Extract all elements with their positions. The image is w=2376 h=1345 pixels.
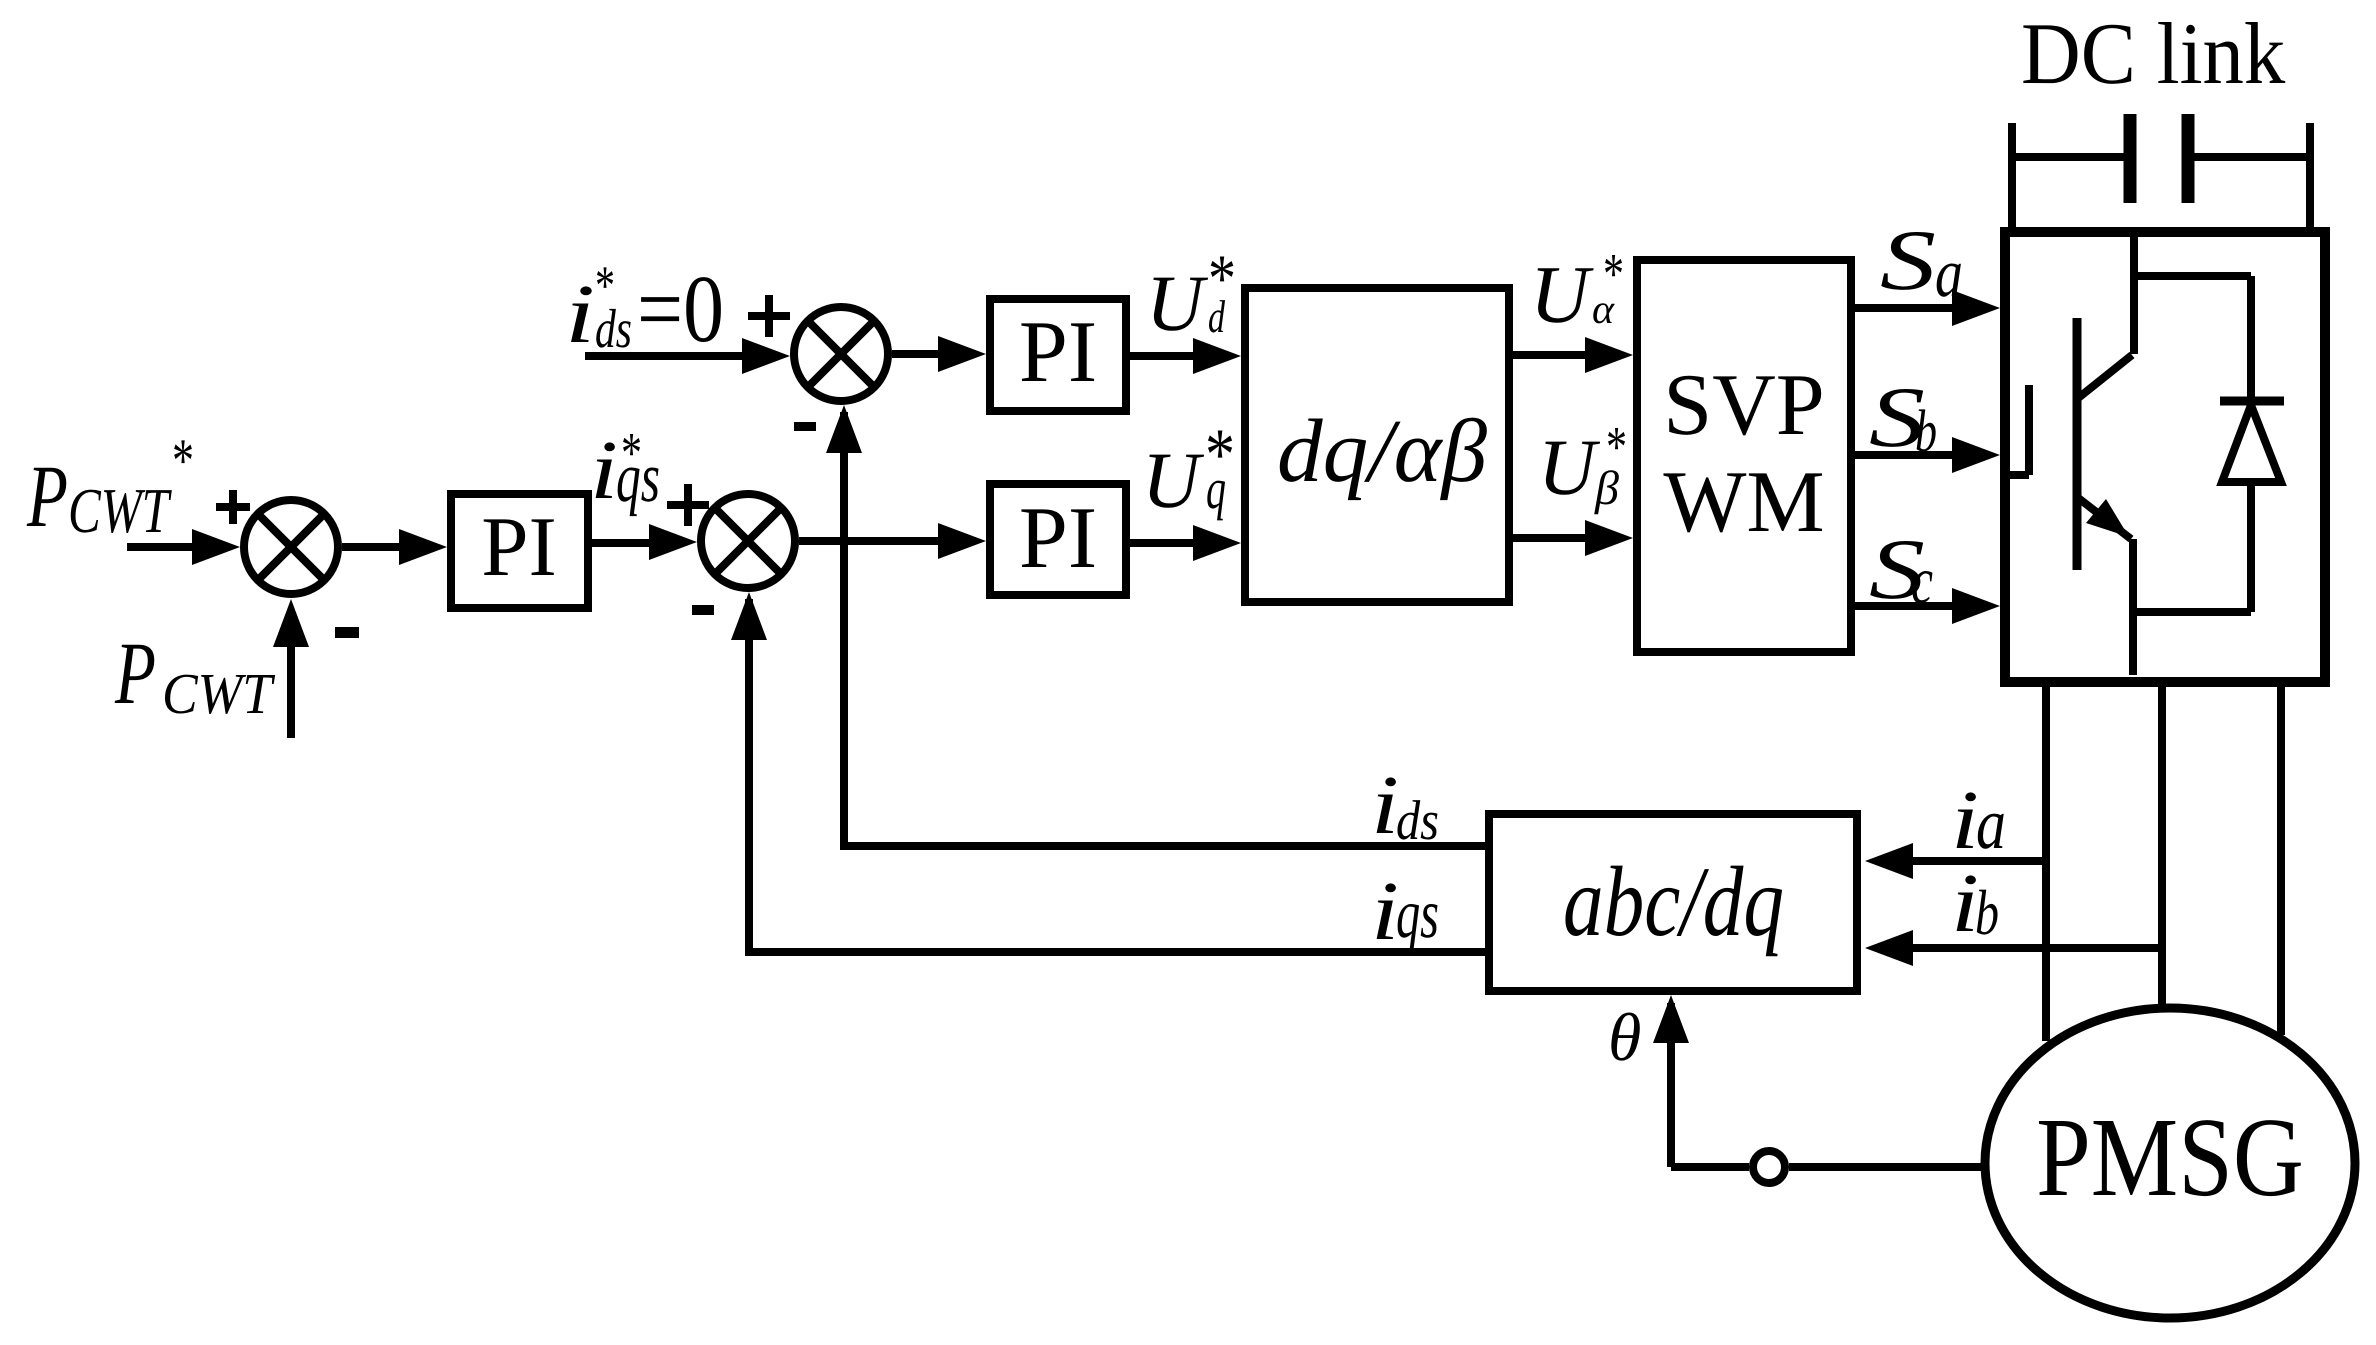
svg-text:P: P [26, 448, 68, 546]
svg-text:b: b [1975, 877, 1999, 948]
IGBT gate bar [2025, 385, 2033, 475]
wire diode to collector [2134, 272, 2251, 280]
label Sb [1869, 369, 1937, 465]
wire i*ds input [585, 352, 750, 360]
svg-text:*: * [1205, 414, 1235, 496]
plus sign J1 [216, 490, 250, 524]
wire J3 to PI2 [892, 350, 946, 358]
svg-text:i: i [1951, 774, 1979, 867]
wire sensor to PMSG [1789, 1163, 1985, 1171]
label i*qs [590, 420, 660, 517]
wire ib current [1912, 944, 2162, 952]
PMSG generator [1985, 1008, 2355, 1318]
wire ia current [1912, 857, 2046, 865]
wire U beta to SVPWM [1513, 534, 1593, 542]
IGBT collector lead [2130, 227, 2138, 354]
svg-text:*: * [1208, 240, 1236, 316]
svg-text:U: U [1530, 249, 1594, 340]
PI controller box PI3 [990, 484, 1126, 595]
label Sa [1880, 212, 1963, 311]
svg-text:*: * [1606, 414, 1627, 479]
svg-text:DC link: DC link [2021, 6, 2285, 103]
svg-text:*: * [1603, 241, 1624, 306]
svg-text:abc/dq: abc/dq [1563, 846, 1784, 957]
SVPWM block [1637, 260, 1851, 652]
svg-text:PI: PI [481, 500, 557, 594]
svg-text:*: * [621, 420, 642, 485]
IGBT phase leg [2129, 539, 2137, 675]
svg-text:=0: =0 [637, 255, 724, 362]
IGBT body bar [2073, 318, 2082, 570]
svg-text:S: S [1880, 212, 1936, 308]
PI controller box PI2 [990, 299, 1126, 411]
diode cathode bar [2220, 397, 2284, 406]
svg-text:PI: PI [1019, 490, 1097, 587]
PI controller box PI1 [451, 494, 588, 608]
wire J2 to PI3 [799, 537, 946, 545]
svg-text:WM: WM [1663, 454, 1824, 551]
abc/dq transform block [1489, 814, 1857, 991]
label i ds feedback [1371, 759, 1439, 852]
label i qs feedback [1371, 865, 1439, 958]
wire PI3 to dq block [1130, 539, 1201, 547]
converter box [2005, 232, 2325, 682]
label U*beta [1538, 414, 1627, 515]
svg-text:U: U [1538, 424, 1601, 512]
IGBT emitter arrow [2077, 497, 2131, 539]
diode cathode lead [2247, 276, 2255, 401]
svg-text:dq/αβ: dq/αβ [1277, 402, 1487, 501]
wire Sc [1855, 602, 1960, 610]
IGBT gate lead [2000, 471, 2029, 479]
label U*d [1146, 240, 1236, 348]
summing junction J3 [794, 307, 888, 401]
diode anode lead [2247, 478, 2255, 612]
svg-text:CWT: CWT [162, 661, 275, 726]
minus sign J3 [794, 422, 816, 431]
label P*CWT reference [26, 427, 194, 546]
wire ids feedback [844, 412, 1485, 850]
wire theta to abc/dq [1671, 1003, 1749, 1167]
phase line b [2158, 687, 2166, 1005]
svg-text:i: i [565, 268, 595, 361]
wire Sa [1855, 304, 1960, 312]
svg-text:i: i [1371, 759, 1399, 852]
wire J1 to PI1 [342, 543, 407, 551]
svg-text:*: * [595, 255, 615, 317]
svg-text:U: U [1142, 437, 1205, 525]
wire PI1 to J2 [592, 539, 660, 547]
svg-text:θ: θ [1608, 999, 1641, 1075]
wire PI2 to dq block [1130, 352, 1201, 360]
wire PCWT feedback up arrow [287, 610, 295, 738]
label i*ds = 0 [565, 255, 724, 362]
wire P*CWT input [127, 543, 200, 551]
label Sc [1869, 521, 1933, 618]
svg-text:PMSG: PMSG [2036, 1095, 2304, 1220]
svg-text:P: P [114, 625, 156, 723]
position sensor [1753, 1151, 1785, 1183]
diode triangle [2222, 405, 2281, 482]
svg-text:i: i [590, 424, 618, 517]
svg-text:*: * [172, 427, 194, 495]
minus sign J2 [692, 605, 714, 615]
label i a [1951, 774, 2006, 867]
summing junction J1 [244, 500, 338, 594]
phase line a [2042, 687, 2050, 1041]
wire U alpha to SVPWM [1513, 351, 1593, 359]
svg-text:qs: qs [1396, 876, 1439, 953]
svg-text:CWT: CWT [68, 475, 172, 546]
transform block dq/alpha-beta [1245, 288, 1509, 602]
label PCWT measured [114, 625, 275, 726]
plus sign J3 [748, 295, 790, 337]
label U*alpha [1530, 241, 1624, 340]
summing junction J2 [701, 494, 795, 588]
phase line c [2277, 687, 2285, 1035]
svg-text:SVP: SVP [1663, 357, 1824, 454]
svg-text:U: U [1146, 260, 1209, 348]
label i b [1951, 857, 1999, 950]
DC link capacitor [2012, 114, 2310, 232]
svg-text:PI: PI [1019, 304, 1097, 401]
wire emitter to diode [2133, 608, 2251, 616]
svg-text:a: a [1976, 783, 2006, 864]
label U*q [1142, 414, 1235, 525]
wire Sb [1855, 451, 1960, 459]
wire iqs feedback [749, 599, 1485, 956]
svg-text:i: i [1371, 865, 1399, 958]
plus sign J2 [667, 484, 709, 526]
minus sign J1 [335, 627, 359, 638]
IGBT collector diagonal [2077, 355, 2132, 399]
